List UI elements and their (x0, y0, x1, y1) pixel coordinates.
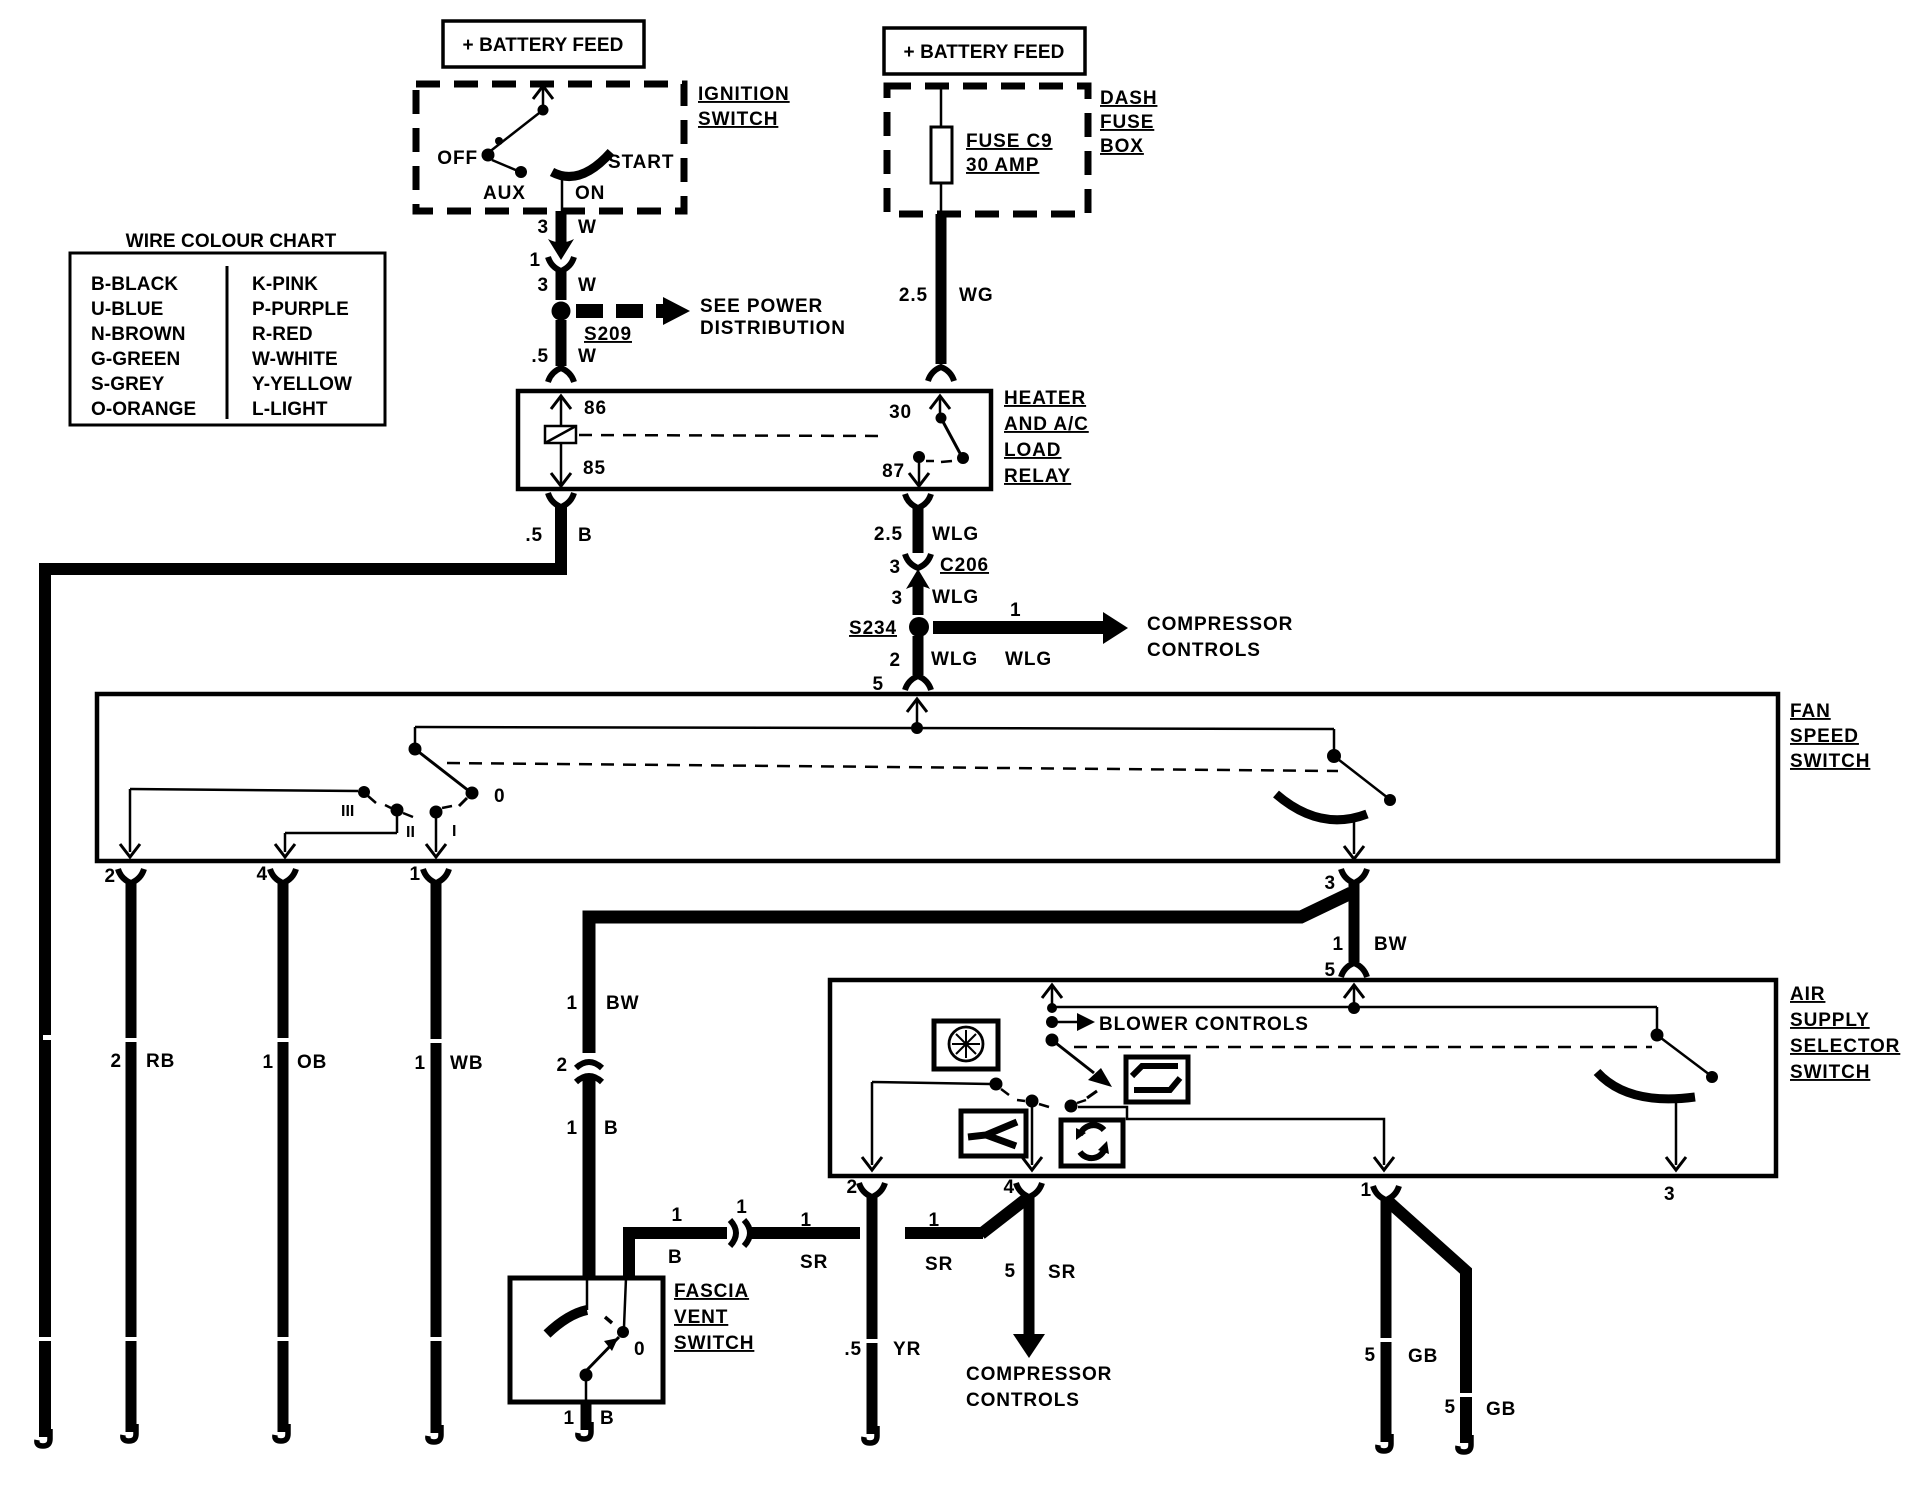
wire III to terminal 2 (120, 789, 358, 857)
svg-text:1: 1 (567, 1118, 578, 1139)
svg-text:CONTROLS: CONTROLS (1147, 640, 1261, 661)
svg-text:SR: SR (800, 1252, 828, 1273)
wire colour chart (70, 231, 385, 425)
svg-text:WLG: WLG (931, 649, 978, 670)
svg-text:B-BLACK: B-BLACK (91, 274, 178, 295)
svg-text:BOX: BOX (1100, 136, 1144, 157)
svg-text:FUSE C9: FUSE C9 (966, 131, 1053, 152)
connector above fan speed switch (873, 674, 931, 695)
fascia vent switch box (510, 1278, 663, 1402)
svg-text:1: 1 (1010, 600, 1021, 621)
svg-text:YR: YR (893, 1339, 921, 1360)
internal dashed line (447, 763, 1338, 771)
svg-text:1: 1 (929, 1210, 940, 1231)
svg-text:B: B (578, 525, 593, 546)
left wire end hook (37, 1429, 50, 1446)
wire 1 B below fascia switch (564, 1402, 615, 1430)
svg-text:Y-YELLOW: Y-YELLOW (252, 374, 352, 395)
svg-text:WLG: WLG (932, 524, 979, 545)
fascia switch contacts (547, 1278, 645, 1402)
entry arrow right (1344, 985, 1364, 1007)
svg-text:.5: .5 (844, 1339, 862, 1360)
svg-text:4: 4 (257, 864, 268, 885)
svg-text:DASH: DASH (1100, 88, 1157, 109)
svg-text:4: 4 (1004, 1177, 1015, 1198)
svg-text:SPEED: SPEED (1790, 726, 1859, 747)
feed entry arrow (907, 699, 927, 727)
svg-text:GB: GB (1486, 1399, 1516, 1420)
svg-text:O-ORANGE: O-ORANGE (91, 399, 196, 420)
svg-text:3: 3 (538, 275, 549, 296)
entry arrow left (1042, 985, 1062, 1007)
fascia vent switch label (674, 1281, 754, 1354)
svg-text:1: 1 (530, 250, 541, 271)
air supply selector label (1790, 984, 1900, 1083)
see power distribution label (700, 296, 846, 339)
svg-text:B: B (668, 1247, 683, 1268)
internal dashed line (1074, 1046, 1652, 1049)
wire to terminal 3 (1344, 822, 1364, 859)
wire 5 GB (straight) (1365, 1199, 1439, 1442)
wire 3 W from ignition switch (538, 211, 597, 248)
svg-text:WIRE COLOUR CHART: WIRE COLOUR CHART (126, 231, 337, 252)
svg-text:L-LIGHT: L-LIGHT (252, 399, 328, 420)
svg-text:C206: C206 (940, 555, 989, 576)
svg-text:U-BLUE: U-BLUE (91, 299, 163, 320)
svg-text:S-GREY: S-GREY (91, 374, 165, 395)
svg-text:+ BATTERY FEED: + BATTERY FEED (463, 35, 624, 56)
svg-text:.5: .5 (531, 346, 549, 367)
contact II (385, 804, 415, 842)
connector below relay 85 (548, 493, 574, 507)
relay terminal 87 (882, 451, 952, 486)
svg-text:3: 3 (890, 557, 901, 578)
svg-text:5: 5 (1005, 1261, 1016, 1282)
rotary wiper (right) (1327, 729, 1396, 806)
SR wire right of YR (905, 1199, 1026, 1275)
ignition switch label (698, 84, 790, 130)
dashed arrow to power distribution (576, 297, 690, 325)
svg-text:2.5: 2.5 (899, 285, 928, 306)
svg-text:2: 2 (111, 1051, 122, 1072)
svg-text:SELECTOR: SELECTOR (1790, 1036, 1900, 1057)
svg-text:WLG: WLG (932, 587, 979, 608)
svg-text:S209: S209 (584, 324, 632, 345)
wire .5 W to relay (531, 320, 597, 382)
wire 2.5 WG (899, 214, 994, 381)
svg-text:AUX: AUX (483, 183, 526, 204)
wire labels 1 B / SR (668, 1205, 828, 1273)
dash fuse box dashed border (887, 86, 1088, 214)
svg-text:30: 30 (889, 402, 912, 423)
svg-text:3: 3 (1325, 873, 1336, 894)
wire 2.5 WLG (874, 507, 979, 553)
rotary wiper (left) (409, 727, 506, 807)
svg-text:3: 3 (1664, 1184, 1675, 1205)
svg-text:N-BROWN: N-BROWN (91, 324, 186, 345)
terminal 3 connector (1325, 869, 1367, 894)
recirculation icon (1061, 1120, 1123, 1166)
fascia SR branch wire (629, 1233, 860, 1278)
svg-text:LOAD: LOAD (1004, 440, 1061, 461)
svg-text:1: 1 (263, 1052, 274, 1073)
selector wiper (right) (1651, 1007, 1719, 1083)
svg-text:2: 2 (557, 1055, 568, 1076)
svg-text:OB: OB (297, 1052, 327, 1073)
svg-text:1: 1 (410, 864, 421, 885)
svg-text:G-GREEN: G-GREEN (91, 349, 180, 370)
wiper arc (right) (1597, 1072, 1695, 1099)
svg-text:86: 86 (584, 398, 607, 419)
svg-text:CONTROLS: CONTROLS (966, 1390, 1080, 1411)
svg-text:K-PINK: K-PINK (252, 274, 318, 295)
BW bus wire to fascia branch (589, 893, 1351, 1276)
heater and A/C load relay box (518, 391, 991, 489)
contact c (1065, 1100, 1087, 1113)
svg-text:W: W (578, 217, 597, 238)
svg-text:1: 1 (1361, 1180, 1372, 1201)
wire run to left edge (45, 506, 561, 1437)
selector wiper (left) (1046, 1034, 1113, 1099)
splice S234 (849, 617, 929, 639)
air supply selector switch box (830, 980, 1776, 1176)
svg-text:2: 2 (105, 866, 116, 887)
svg-text:W: W (578, 275, 597, 296)
relay terminal 85 (551, 443, 606, 486)
svg-text:COMPRESSOR: COMPRESSOR (966, 1364, 1112, 1385)
battery feed box (left) (443, 21, 644, 67)
relay internal dashed link (579, 435, 886, 436)
connector below ignition switch (530, 239, 574, 271)
terminal 1 (air) (1361, 1180, 1399, 1201)
contact a (990, 1078, 1010, 1096)
wire 2 WLG (890, 636, 979, 675)
wire contact c to terminal 1 (1078, 1107, 1394, 1170)
svg-text:ON: ON (575, 183, 605, 204)
svg-text:1: 1 (415, 1053, 426, 1074)
svg-text:SEE POWER: SEE POWER (700, 296, 823, 317)
svg-text:SWITCH: SWITCH (1790, 751, 1870, 772)
wire .5 B (525, 506, 592, 569)
svg-text:COMPRESSOR: COMPRESSOR (1147, 614, 1293, 635)
svg-text:DISTRIBUTION: DISTRIBUTION (700, 318, 846, 339)
fan speed switch label (1790, 701, 1870, 772)
svg-text:SR: SR (1048, 1262, 1076, 1283)
fuse C9 symbol (931, 86, 952, 213)
svg-text:SR: SR (925, 1254, 953, 1275)
svg-text:WB: WB (450, 1053, 483, 1074)
fuse C9 label (966, 131, 1053, 176)
wire 1 BW label (567, 993, 640, 1014)
relay terminal 30 (889, 396, 950, 424)
relay coil (545, 426, 576, 443)
relay terminal 86 (551, 396, 607, 426)
partial recirculation icon (1126, 1057, 1188, 1102)
wire to terminal 3 (1666, 1101, 1686, 1170)
svg-text:SWITCH: SWITCH (1790, 1062, 1870, 1083)
fan icon (934, 1021, 998, 1069)
svg-text:II: II (406, 824, 415, 841)
compressor controls label (lower) (966, 1364, 1112, 1411)
dash fuse box label (1100, 88, 1157, 157)
svg-text:BW: BW (1374, 934, 1407, 955)
relay switch arm (941, 418, 969, 464)
svg-text:+ BATTERY FEED: + BATTERY FEED (904, 42, 1065, 63)
contact III (341, 786, 376, 820)
svg-text:1: 1 (564, 1408, 575, 1429)
svg-text:FASCIA: FASCIA (674, 1281, 749, 1302)
relay label (1004, 388, 1089, 487)
terminal 2 connector (105, 866, 144, 887)
connector below relay 87 (905, 494, 931, 508)
svg-text:1: 1 (672, 1205, 683, 1226)
svg-text:5: 5 (1445, 1397, 1456, 1418)
svg-text:AIR: AIR (1790, 984, 1825, 1005)
svg-text:1: 1 (567, 993, 578, 1014)
svg-text:85: 85 (583, 458, 606, 479)
terminal 2 (air) (847, 1177, 885, 1198)
svg-text:III: III (341, 803, 354, 820)
wire I to terminal 1 (426, 815, 446, 857)
wire 2 RB (111, 882, 176, 1432)
wire 1 BW 5 (fan sw 3 to air supply sw) (1333, 882, 1408, 962)
svg-text:BW: BW (606, 993, 639, 1014)
svg-text:2: 2 (847, 1177, 858, 1198)
battery feed box (right) (884, 28, 1085, 74)
svg-text:1: 1 (1333, 934, 1344, 955)
internal feed line (1052, 1002, 1657, 1014)
wire 1 B label (567, 1118, 619, 1139)
contact b (1017, 1095, 1049, 1108)
svg-text:30 AMP: 30 AMP (966, 155, 1039, 176)
svg-text:HEATER: HEATER (1004, 388, 1086, 409)
svg-text:START: START (608, 152, 674, 173)
svg-text:OFF: OFF (437, 148, 478, 169)
svg-text:P-PURPLE: P-PURPLE (252, 299, 349, 320)
svg-text:S234: S234 (849, 618, 897, 639)
wire 5 GB (diagonal) (1389, 1202, 1516, 1443)
svg-text:1: 1 (736, 1197, 747, 1218)
wire contact b to terminal 4 (1022, 1104, 1042, 1170)
svg-text:BLOWER CONTROLS: BLOWER CONTROLS (1099, 1014, 1309, 1035)
svg-text:0: 0 (494, 786, 505, 807)
svg-text:FAN: FAN (1790, 701, 1831, 722)
wire 3 WLG (892, 582, 980, 615)
svg-text:VENT: VENT (674, 1307, 728, 1328)
inline connector (fascia) (727, 1197, 751, 1246)
svg-text:WLG: WLG (1005, 649, 1052, 670)
svg-text:WG: WG (959, 285, 994, 306)
wire 1 WB (415, 882, 484, 1433)
svg-text:87: 87 (882, 461, 905, 482)
wire 1 OB (263, 882, 328, 1432)
svg-text:2.5: 2.5 (874, 524, 903, 545)
terminal 4 connector (257, 864, 296, 885)
svg-text:RB: RB (146, 1051, 175, 1072)
svg-text:GB: GB (1408, 1346, 1438, 1367)
svg-text:IGNITION: IGNITION (698, 84, 790, 105)
connector above air supply switch (1325, 960, 1367, 981)
svg-text:0: 0 (634, 1339, 645, 1360)
wire .5 YR (844, 1196, 921, 1434)
svg-text:W-WHITE: W-WHITE (252, 349, 338, 370)
svg-text:B: B (604, 1118, 619, 1139)
wire II to terminal 4 (275, 813, 397, 857)
wire contact a to terminal 2 (862, 1082, 990, 1170)
svg-text:SUPPLY: SUPPLY (1790, 1010, 1870, 1031)
internal feed line (415, 722, 1334, 734)
ignition switch dashed box (416, 84, 684, 211)
contact I (430, 806, 457, 841)
arrow to compressor controls (933, 600, 1128, 670)
fan speed switch box (97, 694, 1778, 861)
svg-text:B: B (600, 1408, 615, 1429)
inline connector 2 (557, 1053, 602, 1082)
svg-text:3: 3 (892, 588, 903, 609)
ignition switch contacts (437, 86, 674, 211)
blower controls tap (1046, 1003, 1095, 1031)
svg-text:AND A/C: AND A/C (1004, 414, 1089, 435)
compressor controls label (upper) (1147, 614, 1293, 661)
terminal 4 (air) (1004, 1177, 1042, 1198)
fresh air vent icon (961, 1111, 1026, 1156)
wire 5 SR to compressor controls (1005, 1196, 1077, 1358)
wire 3 W to splice S209 (538, 271, 597, 300)
svg-text:FUSE: FUSE (1100, 112, 1154, 133)
connector C206 (890, 554, 990, 589)
wiper arc (right) (1276, 794, 1367, 820)
svg-text:I: I (452, 823, 456, 840)
svg-text:2: 2 (890, 650, 901, 671)
terminal 1 connector (410, 864, 449, 885)
svg-text:SWITCH: SWITCH (698, 109, 778, 130)
svg-text:SWITCH: SWITCH (674, 1333, 754, 1354)
svg-text:5: 5 (1365, 1345, 1376, 1366)
svg-text:3: 3 (538, 217, 549, 238)
svg-text:W: W (578, 346, 597, 367)
svg-text:.5: .5 (525, 525, 543, 546)
svg-text:1: 1 (801, 1210, 812, 1231)
svg-text:RELAY: RELAY (1004, 466, 1071, 487)
splice S209 (552, 302, 632, 346)
svg-text:R-RED: R-RED (252, 324, 313, 345)
